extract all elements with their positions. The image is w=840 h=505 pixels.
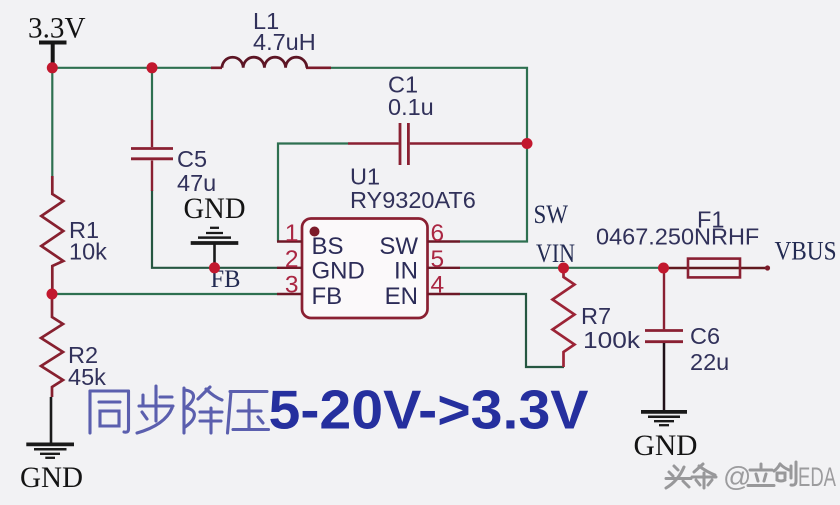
- svg-text:1: 1: [285, 220, 299, 247]
- svg-text:GND: GND: [634, 429, 698, 462]
- U1 pin 6: [428, 220, 461, 247]
- power flag 3.3V: [28, 12, 86, 65]
- wire: [51, 68, 53, 176]
- junction at R1/R2 FB node: [47, 289, 58, 300]
- ground (bottom left): [20, 397, 83, 494]
- svg-text:SW: SW: [534, 200, 569, 229]
- U1 pin 3: [277, 272, 302, 299]
- annotation text 同 (drawn strokes): [90, 391, 129, 433]
- U1 pin 1: [277, 220, 302, 247]
- inductor L1: [211, 8, 331, 68]
- wire: [152, 190, 277, 268]
- junction at middle ground: [209, 262, 220, 273]
- U1 pin 2: [277, 246, 302, 273]
- junction at 3.3V rail left: [47, 62, 58, 73]
- svg-text:22u: 22u: [690, 349, 729, 375]
- watermark EDA: [798, 462, 836, 492]
- svg-text:EN: EN: [385, 283, 418, 310]
- watermark 立 (drawn strokes): [748, 464, 774, 486]
- svg-text:GND: GND: [312, 258, 365, 285]
- U1 pin name EN: [385, 283, 418, 310]
- junction at C5 top: [147, 62, 158, 73]
- svg-text:VIN: VIN: [536, 239, 575, 268]
- capacitor C1: [348, 72, 522, 166]
- svg-text:RY9320AT6: RY9320AT6: [350, 187, 476, 213]
- U1 pin 5: [428, 246, 461, 273]
- wire: [52, 67, 218, 69]
- wire: [460, 267, 664, 269]
- svg-text:@: @: [723, 461, 751, 492]
- resistor R2: [41, 294, 106, 397]
- annotation text 降 (drawn strokes): [184, 387, 222, 433]
- U1 pin 4: [428, 272, 461, 299]
- wire: [330, 68, 527, 242]
- svg-text:4.7uH: 4.7uH: [253, 29, 316, 55]
- wire: [52, 293, 277, 295]
- svg-text:BS: BS: [312, 233, 344, 260]
- watermark 创 (drawn strokes): [774, 462, 796, 485]
- U1 designator label: [350, 164, 476, 214]
- watermark 条 (drawn strokes): [692, 464, 716, 488]
- svg-text:EDA: EDA: [798, 462, 836, 492]
- svg-text:5: 5: [431, 246, 445, 273]
- watermark @: [723, 461, 751, 492]
- U1 pin name BS: [312, 233, 344, 260]
- svg-text:C6: C6: [690, 323, 720, 349]
- capacitor C5: [131, 120, 216, 196]
- svg-text:SW: SW: [379, 233, 418, 260]
- ground (middle, inverted): [184, 193, 246, 268]
- watermark 头 (drawn strokes): [666, 466, 691, 488]
- junction at C6 / fuse: [658, 263, 669, 274]
- wire: [151, 68, 153, 120]
- node VIN label: [536, 239, 575, 268]
- node FB label: [211, 266, 241, 293]
- node SW label: [534, 200, 569, 229]
- U1 pin name GND: [312, 258, 365, 285]
- svg-text:R7: R7: [581, 303, 611, 329]
- U1 pin name SW: [379, 233, 418, 260]
- svg-text:10k: 10k: [69, 239, 107, 265]
- svg-text:U1: U1: [350, 164, 380, 190]
- op-amp U1 body: [302, 219, 428, 319]
- svg-text:5-20V->3.3V: 5-20V->3.3V: [269, 379, 589, 441]
- ground (right, under C6): [634, 412, 698, 462]
- annotation text 5-20V->3.3V: [269, 379, 589, 441]
- annotation text 压 (drawn strokes): [228, 392, 269, 434]
- resistor R7: [553, 268, 641, 367]
- capacitor C6: [645, 273, 729, 411]
- svg-text:0.1u: 0.1u: [388, 94, 434, 120]
- svg-text:6: 6: [431, 220, 445, 247]
- svg-text:3: 3: [285, 272, 299, 299]
- svg-text:VBUS: VBUS: [775, 237, 837, 266]
- annotation text 步 (drawn strokes): [137, 386, 173, 433]
- wire: [278, 144, 348, 242]
- svg-text:0467.250NRHF: 0467.250NRHF: [596, 224, 759, 250]
- svg-text:4: 4: [431, 272, 445, 299]
- svg-text:45k: 45k: [68, 364, 106, 390]
- junction at VIN / R7: [558, 263, 569, 274]
- svg-text:GND: GND: [184, 193, 246, 225]
- svg-text:100k: 100k: [583, 327, 640, 353]
- svg-text:2: 2: [285, 246, 299, 273]
- node VBUS label: [775, 237, 837, 266]
- fuse F1: [596, 207, 770, 278]
- wire: [460, 294, 564, 367]
- svg-text:FB: FB: [312, 283, 343, 310]
- resistor R1: [41, 176, 107, 294]
- svg-text:GND: GND: [20, 461, 83, 494]
- U1 pin name FB: [312, 283, 343, 310]
- junction at C1 right / SW: [522, 138, 533, 149]
- svg-text:C5: C5: [177, 146, 207, 172]
- U1 pin name IN: [394, 258, 418, 285]
- svg-text:3.3V: 3.3V: [28, 12, 86, 45]
- svg-text:IN: IN: [394, 258, 418, 285]
